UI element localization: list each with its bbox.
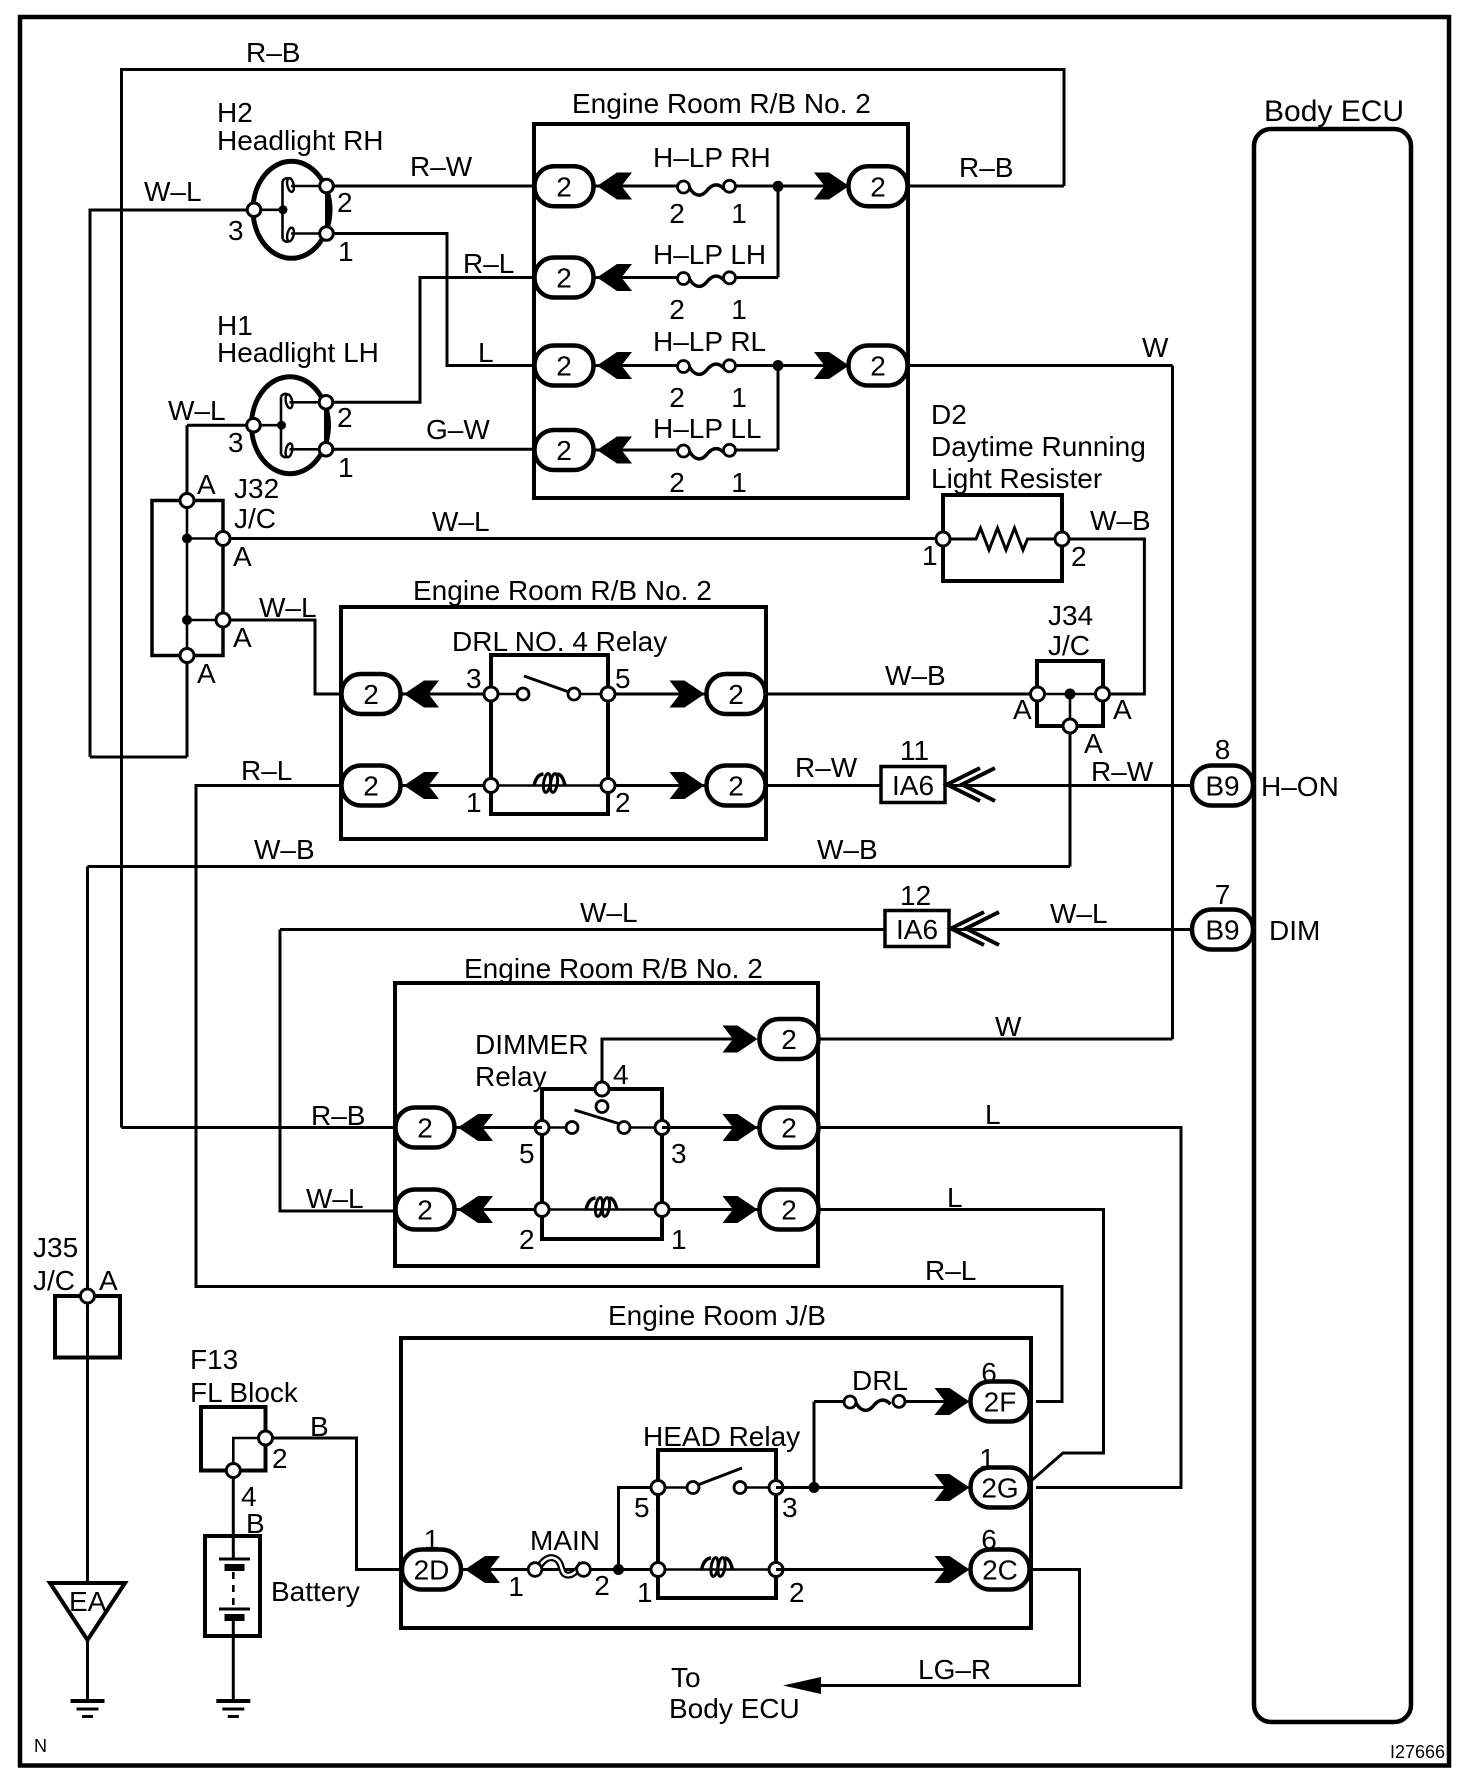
connector IA6 (11) (881, 767, 945, 803)
svg-text:D2: D2 (931, 399, 967, 430)
J32 internal bus (186, 501, 189, 656)
svg-text:3: 3 (782, 1492, 798, 1523)
svg-text:W–L: W–L (259, 592, 317, 623)
svg-text:A: A (1013, 694, 1032, 725)
ground symbol EA (71, 1701, 105, 1717)
svg-text:L: L (478, 337, 494, 368)
DIMMER relay outer box (395, 983, 818, 1266)
svg-text:R–L: R–L (925, 1255, 976, 1286)
svg-text:5: 5 (615, 663, 631, 694)
svg-text:Body ECU: Body ECU (669, 1693, 800, 1724)
2D left arrow (465, 1556, 500, 1583)
J34 internal bus (1037, 693, 1103, 696)
svg-text:2: 2 (363, 679, 379, 710)
svg-text:R–L: R–L (463, 248, 514, 279)
svg-text:R–W: R–W (795, 752, 858, 783)
svg-text:EA: EA (69, 1586, 107, 1617)
HEAD relay switch (651, 1468, 783, 1495)
svg-text:H–LP LH: H–LP LH (653, 239, 766, 270)
wire W-B DRL relay to J34 (766, 693, 1031, 696)
fusible link block F13 box (201, 1407, 266, 1471)
wire W-L to H2 pin 3 (90, 209, 249, 212)
wire W-B long horizontal (88, 865, 1071, 868)
wire R-W IA6 to B9 (945, 784, 1192, 787)
J32 terminal A right1 (216, 532, 230, 546)
svg-text:A: A (233, 541, 252, 572)
svg-text:1: 1 (671, 1224, 687, 1255)
svg-text:H2: H2 (217, 97, 253, 128)
svg-text:R–B: R–B (959, 152, 1013, 183)
svg-text:2: 2 (669, 198, 685, 229)
svg-text:2: 2 (1071, 541, 1087, 572)
DIMMER relay coil (535, 1197, 669, 1217)
svg-text:Body ECU: Body ECU (1264, 95, 1404, 128)
D2 pin 2 (1055, 532, 1069, 546)
svg-text:4: 4 (613, 1059, 629, 1090)
svg-text:W–L: W–L (1050, 898, 1108, 929)
svg-text:Relay: Relay (475, 1061, 547, 1092)
wire W-L IA6 to B9 (949, 928, 1192, 931)
svg-text:Engine Room R/B No. 2: Engine Room R/B No. 2 (464, 953, 763, 984)
DRL relay connector ovals (342, 674, 401, 714)
svg-text:3: 3 (671, 1138, 687, 1169)
svg-text:1: 1 (731, 382, 747, 413)
svg-text:W–B: W–B (817, 834, 878, 865)
svg-text:2: 2 (417, 1195, 433, 1226)
svg-text:W–B: W–B (1090, 505, 1151, 536)
svg-text:2: 2 (669, 467, 685, 498)
svg-text:HEAD Relay: HEAD Relay (643, 1421, 800, 1452)
DIMMER relay pin 4 (595, 1082, 609, 1096)
svg-text:B9: B9 (1205, 915, 1239, 946)
svg-text:1: 1 (637, 1577, 653, 1608)
svg-text:H–LP RL: H–LP RL (653, 326, 766, 357)
DRL relay coil row wires (400, 784, 491, 787)
wire W-B from D2 pin2 to J34 (1069, 539, 1144, 694)
svg-text:W–L: W–L (306, 1183, 364, 1214)
svg-text:3: 3 (228, 215, 244, 246)
svg-text:L: L (985, 1099, 1001, 1130)
wire J34 bottom to W-B long (1069, 733, 1072, 867)
svg-text:2: 2 (417, 1113, 433, 1144)
svg-text:2: 2 (669, 382, 685, 413)
wire W-L vertical to J32 top (186, 425, 189, 496)
J32 terminal A right2 (216, 613, 230, 627)
svg-text:J32: J32 (234, 473, 279, 504)
wire J32 bottom to y757 (186, 663, 189, 758)
svg-text:IA6: IA6 (896, 914, 938, 945)
svg-text:1: 1 (508, 1571, 524, 1602)
svg-text:F13: F13 (190, 1344, 238, 1375)
2G right arrow (935, 1474, 970, 1501)
DRL relay inner box (491, 655, 608, 814)
svg-text:W: W (995, 1011, 1022, 1042)
F13 pin 2 (259, 1431, 273, 1445)
wire W-L long J32 to D2 (230, 537, 936, 540)
junction dot DRL branch (809, 1482, 820, 1493)
J34 terminal A left (1031, 687, 1045, 701)
connector IA6 (12) (885, 911, 949, 947)
svg-text:W–B: W–B (254, 834, 315, 865)
svg-text:FL Block: FL Block (190, 1377, 299, 1408)
svg-text:7: 7 (1215, 879, 1231, 910)
svg-text:A: A (197, 469, 216, 500)
svg-text:Daytime Running: Daytime Running (931, 431, 1146, 462)
svg-text:Headlight LH: Headlight LH (217, 337, 379, 368)
wire B from F13 to 2D (273, 1438, 403, 1570)
resistor D2 element (950, 528, 1055, 550)
headlight H2 bulb (247, 161, 333, 258)
DIMMER relay right arrows (723, 1026, 758, 1053)
2C right arrow (935, 1556, 970, 1583)
wire R-B right vertical (1063, 68, 1066, 186)
svg-text:2: 2 (781, 1195, 797, 1226)
svg-text:Battery: Battery (271, 1576, 360, 1607)
connector 2D oval (402, 1550, 461, 1590)
svg-text:B9: B9 (1205, 771, 1239, 802)
HEAD relay inner box (658, 1450, 776, 1598)
headlight H1 bulb (247, 377, 333, 474)
svg-text:J/C: J/C (234, 503, 276, 534)
DIMMER relay switch row wires (454, 1126, 542, 1129)
svg-text:2C: 2C (982, 1555, 1018, 1586)
svg-text:2: 2 (556, 263, 572, 294)
svg-text:1: 1 (731, 198, 747, 229)
DRL relay right arrows (670, 681, 705, 708)
J35 center line (86, 1303, 89, 1583)
svg-text:12: 12 (900, 880, 931, 911)
svg-text:A: A (197, 658, 216, 689)
svg-text:11: 11 (900, 735, 929, 766)
svg-text:To: To (671, 1662, 701, 1693)
svg-text:2G: 2G (981, 1473, 1018, 1504)
wire battery to ground (232, 1621, 235, 1701)
wire W-L vertical to DIMMER (280, 930, 395, 1212)
svg-text:2: 2 (594, 1570, 610, 1601)
svg-text:3: 3 (228, 427, 244, 458)
fuse H-LP RL row (535, 326, 908, 413)
wire R-L from H1 pin2 (333, 278, 536, 403)
svg-text:2: 2 (789, 1577, 805, 1608)
svg-text:2: 2 (615, 787, 631, 818)
fusible link MAIN (508, 1525, 610, 1602)
LG-R arrowhead (783, 1677, 821, 1694)
svg-text:J35: J35 (33, 1232, 78, 1263)
2F right arrow (935, 1388, 970, 1415)
junction connector J34 box (1037, 661, 1103, 726)
F13 internal line (233, 1438, 265, 1471)
J35 terminal A (81, 1289, 95, 1303)
resistor D2 box (943, 495, 1062, 581)
svg-text:R–B: R–B (246, 37, 300, 68)
svg-text:H–ON: H–ON (1261, 771, 1339, 802)
connector B9 (DIM) (1192, 910, 1253, 950)
wire L bottom (818, 1210, 1104, 1482)
ground symbol battery (216, 1701, 250, 1717)
wire HEAD pin2 to 2C (776, 1568, 966, 1571)
svg-text:A: A (1084, 728, 1103, 759)
svg-text:2: 2 (781, 1113, 797, 1144)
DIMMER relay connector ovals (396, 1108, 455, 1148)
svg-text:1: 1 (338, 236, 354, 267)
wire R-L DRL to 2F (196, 786, 1062, 1402)
svg-text:2: 2 (519, 1224, 535, 1255)
svg-text:L: L (947, 1182, 963, 1213)
wire R-B top horizontal (122, 68, 1065, 71)
svg-text:1: 1 (731, 294, 747, 325)
svg-text:A: A (233, 622, 252, 653)
svg-text:5: 5 (519, 1138, 535, 1169)
svg-text:LG–R: LG–R (918, 1654, 991, 1685)
wire LG-R from 2C (790, 1570, 1080, 1686)
J32 terminal A top (180, 494, 194, 508)
wire L from H2 pin1 (333, 234, 535, 366)
svg-text:W–L: W–L (168, 395, 226, 426)
svg-text:DRL: DRL (852, 1365, 908, 1396)
svg-text:2: 2 (556, 435, 572, 466)
wire R-W from H2 pin2 to fuse box (333, 185, 535, 188)
J32 terminal A bottom (180, 649, 194, 663)
svg-text:Engine Room R/B No. 2: Engine Room R/B No. 2 (572, 88, 871, 119)
svg-text:2: 2 (870, 172, 886, 203)
svg-text:2: 2 (728, 679, 744, 710)
svg-text:Light Resister: Light Resister (931, 463, 1102, 494)
svg-text:Headlight RH: Headlight RH (217, 125, 384, 156)
DRL relay coil (484, 773, 615, 793)
connector 2C oval (971, 1550, 1030, 1590)
svg-text:R–W: R–W (410, 151, 473, 182)
svg-text:H–LP RH: H–LP RH (653, 142, 771, 173)
Body ECU box (1254, 129, 1411, 1722)
J34 terminal A bottom (1063, 719, 1077, 733)
svg-text:2: 2 (363, 771, 379, 802)
HEAD relay coil (651, 1557, 783, 1577)
svg-text:2: 2 (781, 1024, 797, 1055)
wire W from fuse H-LP RL to Body side (908, 364, 1173, 367)
svg-text:R–L: R–L (241, 755, 292, 786)
svg-text:W–B: W–B (885, 660, 946, 691)
fuse H-LP RH row (535, 142, 908, 229)
svg-text:1: 1 (338, 452, 354, 483)
DRL relay left arrows (404, 681, 439, 708)
svg-text:1: 1 (466, 787, 482, 818)
svg-text:A: A (1113, 694, 1132, 725)
wire R-B left vertical (120, 68, 123, 1128)
svg-text:R–W: R–W (1091, 756, 1154, 787)
svg-text:2: 2 (870, 351, 886, 382)
fuse H-LP LL row (535, 366, 779, 499)
F13 pin 4 (226, 1464, 240, 1478)
wire W vertical (1171, 366, 1174, 1040)
wire W-B vertical to J35 (86, 867, 89, 1291)
fuse DRL (814, 1365, 966, 1410)
DRL relay outer box (341, 607, 766, 839)
wire W-L to H1 pin 3 (187, 424, 248, 427)
svg-text:2D: 2D (414, 1555, 450, 1586)
svg-text:3: 3 (466, 663, 482, 694)
DIMMER relay inner box (542, 1089, 662, 1239)
chevrons at IA6 11 (947, 768, 980, 801)
wire DRL branch riser (813, 1402, 816, 1488)
svg-text:DIMMER: DIMMER (475, 1029, 589, 1060)
svg-text:W: W (1142, 332, 1169, 363)
DIMMER relay left arrows (458, 1114, 493, 1141)
svg-text:2: 2 (728, 771, 744, 802)
wire W-L J32 to DRL relay (230, 620, 341, 694)
svg-text:R–B: R–B (311, 1100, 365, 1131)
chevrons at IA6 12 (951, 912, 984, 945)
DRL relay switch (484, 676, 615, 701)
J34 terminal A right (1096, 687, 1110, 701)
svg-text:J34: J34 (1048, 600, 1093, 631)
junction connector J32 box (152, 501, 223, 656)
svg-text:2: 2 (337, 402, 353, 433)
svg-text:1: 1 (731, 467, 747, 498)
wire W-L vertical x=90 (89, 209, 92, 758)
svg-text:W–L: W–L (144, 176, 202, 207)
svg-text:2: 2 (337, 187, 353, 218)
wire R-B from fuse H-LP RH to vertical (908, 185, 1064, 188)
svg-text:DIM: DIM (1269, 915, 1320, 946)
svg-text:DRL NO. 4 Relay: DRL NO. 4 Relay (452, 626, 667, 657)
J32 junction dots (182, 534, 192, 544)
wire MAIN row (461, 1568, 651, 1571)
svg-text:J/C: J/C (1048, 630, 1090, 661)
wire G-W from H1 pin1 (333, 448, 536, 451)
junction dot MAIN (613, 1564, 624, 1575)
svg-text:Engine Room J/B: Engine Room J/B (608, 1300, 826, 1331)
svg-text:G–W: G–W (426, 414, 490, 445)
svg-text:2: 2 (669, 294, 685, 325)
svg-text:1: 1 (922, 540, 938, 571)
wire W-L left of IA6 12 (280, 928, 885, 931)
ground EA triangle (50, 1583, 125, 1640)
svg-text:2F: 2F (984, 1387, 1017, 1418)
junction connector J35 box (55, 1296, 120, 1358)
DIMMER relay switch (535, 1101, 669, 1135)
D2 pin 1 (936, 532, 950, 546)
fuse H-LP LH row (535, 186, 779, 325)
DIMMER relay coil row wires (454, 1208, 542, 1211)
connector B9 (H-ON) (1192, 766, 1253, 806)
wire L middle (818, 1128, 1181, 1488)
svg-text:Engine Room R/B No. 2: Engine Room R/B No. 2 (413, 575, 712, 606)
svg-text:W–L: W–L (432, 506, 490, 537)
svg-text:2: 2 (556, 172, 572, 203)
svg-text:2: 2 (272, 1443, 288, 1474)
DRL relay switch row wires (400, 693, 491, 696)
fuse box Engine Room R/B No.2 (534, 124, 908, 498)
svg-text:B: B (310, 1411, 329, 1442)
svg-text:W–L: W–L (580, 897, 638, 928)
Engine Room J/B box (401, 1338, 1031, 1628)
wire HEAD pin3 to 2G (776, 1486, 966, 1489)
svg-text:N: N (34, 1736, 47, 1756)
wire EA to ground (86, 1640, 89, 1701)
svg-text:I27666: I27666 (1390, 1742, 1445, 1762)
svg-text:MAIN: MAIN (530, 1525, 600, 1556)
svg-text:A: A (99, 1265, 118, 1296)
svg-text:J/C: J/C (33, 1265, 75, 1296)
connector 2G oval (971, 1468, 1030, 1508)
wire W DIMMER to vertical (818, 1038, 1173, 1041)
wire W-L horizontal y=757 to J32 (90, 756, 187, 759)
DIMMER relay pin4 riser (602, 1039, 736, 1082)
svg-text:IA6: IA6 (892, 770, 934, 801)
svg-text:8: 8 (1215, 734, 1231, 765)
wire riser to HEAD relay pin5 (619, 1488, 652, 1570)
wire R-B into DIMMER relay (122, 1126, 396, 1129)
battery (205, 1536, 260, 1636)
wire R-W DRL relay to IA6 (766, 784, 881, 787)
svg-text:H–LP LL: H–LP LL (653, 413, 761, 444)
wire F13 pin4 to battery (232, 1478, 235, 1560)
svg-text:2: 2 (556, 351, 572, 382)
connector 2F oval (971, 1382, 1030, 1422)
svg-text:5: 5 (634, 1492, 650, 1523)
